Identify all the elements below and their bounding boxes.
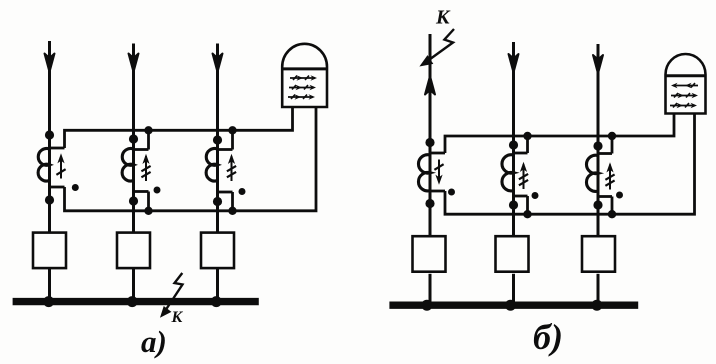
svg-text:К: К <box>171 309 184 326</box>
svg-text:К: К <box>435 7 451 29</box>
svg-text:а): а) <box>141 324 167 359</box>
svg-text:б): б) <box>533 317 563 357</box>
